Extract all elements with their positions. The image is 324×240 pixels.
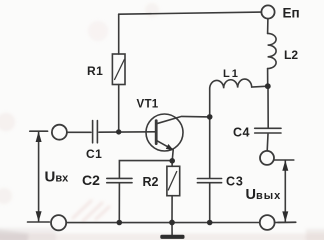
svg-text:Eп: Eп — [283, 6, 300, 21]
svg-text:C4: C4 — [233, 125, 250, 139]
svg-text:C1: C1 — [86, 147, 102, 161]
svg-text:VT1: VT1 — [137, 98, 159, 110]
svg-text:Uвх: Uвх — [45, 169, 70, 186]
svg-text:L1: L1 — [223, 68, 240, 80]
svg-text:R2: R2 — [143, 175, 159, 189]
svg-text:C2: C2 — [82, 172, 100, 188]
svg-text:Uвых: Uвых — [246, 187, 282, 203]
svg-text:L2: L2 — [284, 48, 298, 62]
svg-text:C3: C3 — [226, 174, 244, 188]
svg-text:R1: R1 — [87, 64, 103, 78]
